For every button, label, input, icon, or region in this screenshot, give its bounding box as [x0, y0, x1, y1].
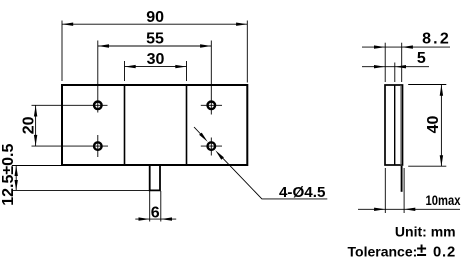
svg-text:8.2: 8.2	[422, 31, 451, 48]
hole top-right horizontal centerline	[201, 104, 222, 106]
dim 20 line	[35, 105, 37, 146]
dim 30 extension line right	[186, 61, 188, 81]
dim 55 arrow left	[98, 44, 109, 47]
dim 12.5 arrow bottom	[15, 180, 18, 190]
dim 10max arrow right	[404, 208, 415, 211]
dim 30 line	[125, 66, 187, 68]
dim 8.2 arrow right	[402, 45, 413, 48]
leader upper arrowhead	[199, 133, 208, 142]
dim 6 line	[135, 218, 176, 220]
dim 90 arrow right	[236, 23, 247, 26]
dim 12.5 extension line bottom	[12, 189, 150, 191]
hole bottom-right	[208, 142, 216, 150]
dim 6 arrow left	[139, 217, 150, 220]
svg-text:20: 20	[20, 116, 37, 134]
dim 90 arrow left	[62, 23, 73, 26]
hole top-right	[208, 102, 216, 110]
hole top-right vertical centerline / 55 extension	[210, 41, 212, 115]
dim 20 arrow top	[34, 105, 37, 116]
hole bottom-right vertical centerline	[210, 138, 212, 156]
side view body outline	[385, 85, 403, 165]
svg-text:±: ±	[417, 240, 427, 260]
dim 5 line	[362, 66, 429, 68]
division line left	[124, 85, 126, 165]
dim 10max arrow left	[374, 208, 385, 211]
svg-text:40: 40	[425, 116, 442, 134]
dim 5 extension line middle	[394, 63, 396, 83]
dim 5 arrow left	[374, 65, 385, 68]
dim 30 arrow right	[175, 65, 186, 68]
dim 40 line	[440, 85, 442, 167]
dim 10max line	[358, 208, 460, 210]
svg-text:90: 90	[146, 9, 164, 26]
svg-text:30: 30	[147, 51, 165, 68]
svg-text:10max: 10max	[426, 193, 461, 208]
side view inner line 2	[400, 85, 402, 165]
dim 55 arrow right	[200, 44, 211, 47]
svg-text:0.2: 0.2	[433, 245, 456, 261]
dim 20 arrow bottom	[34, 135, 37, 146]
dim 12.5 arrow top	[15, 166, 18, 177]
hole top-left horizontal centerline	[32, 104, 108, 106]
dim 40 extension line bottom	[408, 165, 446, 167]
dim 5 arrow right	[395, 65, 406, 68]
svg-text:4-Ø4.5: 4-Ø4.5	[279, 184, 326, 201]
dim 10max extension line left	[384, 168, 386, 213]
hole bottom-left horizontal centerline	[32, 145, 109, 147]
svg-text:12.5±0.5: 12.5±0.5	[0, 144, 17, 206]
dim 6 extension line left	[149, 191, 151, 222]
hole top-left vertical centerline / 55 extension	[97, 41, 99, 113]
hole bottom-right horizontal centerline	[201, 145, 222, 147]
dim 12.5 extension line top	[12, 165, 62, 167]
dim 8.2 line	[362, 46, 450, 48]
leader lower segment	[221, 156, 328, 199]
dim 8.2 extension line right	[401, 43, 403, 82]
leader upper segment	[194, 127, 203, 136]
leader lower arrowhead	[215, 150, 224, 159]
front view body outline	[62, 85, 247, 165]
hole bottom-left vertical centerline	[97, 135, 99, 157]
dim 30 extension line left	[124, 61, 126, 81]
svg-text:55: 55	[146, 31, 164, 48]
dim 90 extension line right	[246, 21, 248, 83]
dim 40 arrow bottom	[440, 155, 443, 166]
dim 6 arrow right	[161, 217, 172, 220]
dim 40 arrow top	[440, 85, 443, 96]
dim 8.2 extension line left	[384, 43, 386, 82]
bottom tab	[150, 166, 160, 190]
dim 8.2 arrow left	[374, 45, 385, 48]
dim 30 arrow left	[125, 65, 136, 68]
dim 12.5 line	[15, 166, 17, 191]
svg-text:5: 5	[417, 50, 426, 67]
dim 10max extension line right	[403, 168, 405, 213]
dim 40 extension line top	[408, 84, 446, 86]
dim 55 line	[98, 45, 212, 47]
svg-text:Unit: mm: Unit: mm	[395, 224, 456, 240]
svg-text:6: 6	[151, 205, 160, 222]
side view pin	[401, 166, 403, 192]
side view inner line	[394, 85, 396, 165]
division line right	[186, 85, 188, 165]
dim 90 line	[62, 23, 247, 25]
dim 6 extension line right	[160, 191, 162, 222]
hole top-left	[94, 102, 102, 110]
dim 90 extension line left	[61, 21, 63, 82]
hole bottom-left	[94, 142, 102, 150]
svg-text:Tolerance:: Tolerance:	[348, 244, 418, 260]
